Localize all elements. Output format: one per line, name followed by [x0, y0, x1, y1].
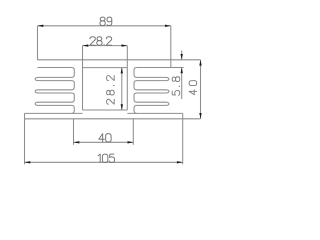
text 105	[98, 154, 115, 162]
dimension 28.2 top: dim line and extension lines	[83, 46, 128, 110]
text 5.8 (rotated)	[172, 77, 180, 96]
40 right dim arrows	[199, 60, 201, 66]
dimension 40 right: dim line and extension lines	[171, 60, 201, 119]
right fin field (slots and fins)	[134, 68, 169, 114]
central cavity	[83, 68, 128, 110]
dimension 40 bottom: dim line and extension lines	[74, 119, 134, 145]
text 40 right (rotated)	[189, 81, 197, 95]
28.2 top dim arrows	[83, 44, 89, 46]
dimension 105: dim line and extension lines	[25, 119, 183, 165]
text 28.2 top	[90, 37, 112, 45]
105 dim arrows	[25, 161, 31, 163]
40 bottom dim arrows	[74, 141, 80, 143]
left fin field (slots and fins)	[35, 68, 74, 114]
base plate	[25, 113, 183, 118]
89 dim arrows	[38, 25, 44, 27]
dimension 5.8: dim line parts and extension line	[171, 50, 184, 99]
5.8 dim arrows	[181, 54, 183, 60]
arrowheads	[25, 25, 202, 164]
text 28.2 cavity (rotated)	[107, 76, 115, 105]
text 40 bottom	[99, 134, 111, 142]
text 89	[100, 17, 112, 25]
dimension 28.2 cavity: vertical dim line	[121, 68, 123, 110]
top plate	[38, 60, 171, 68]
dimension 89: dim line and extension lines	[38, 26, 171, 68]
28.2 cavity dim arrows	[121, 68, 123, 74]
